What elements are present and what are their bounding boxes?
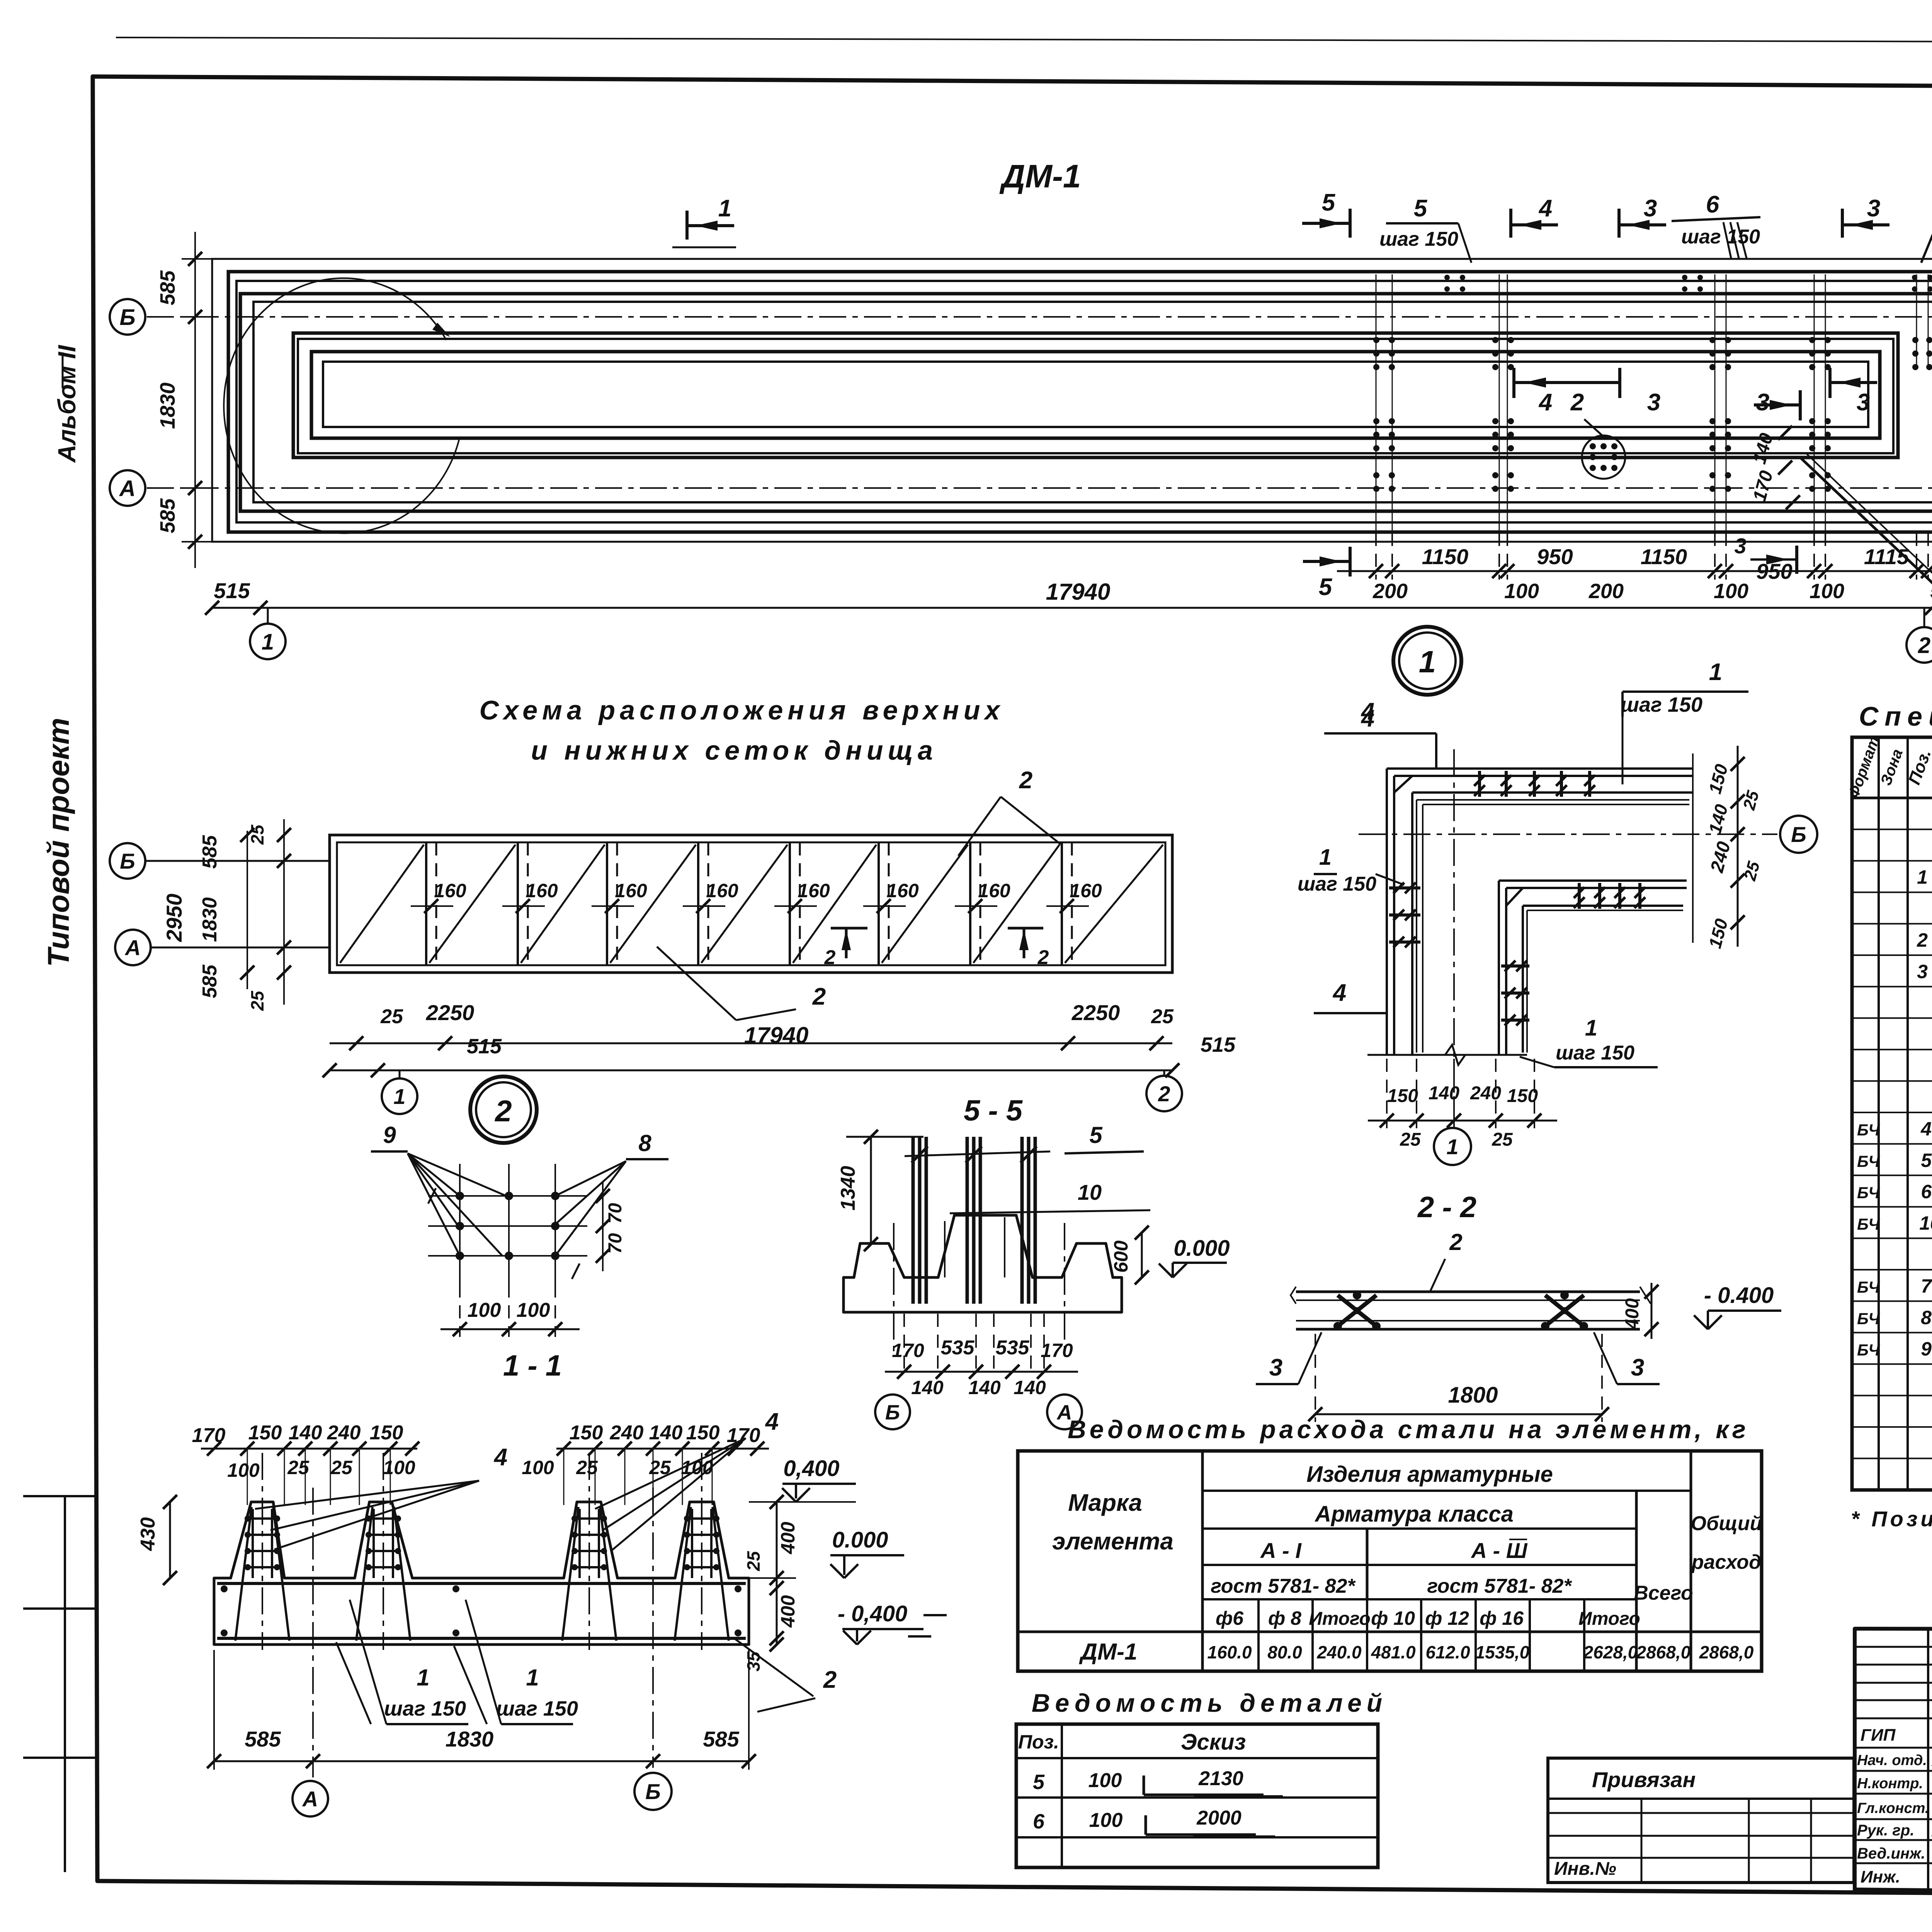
svg-text:Б: Б xyxy=(120,849,135,873)
svg-text:240.0: 240.0 xyxy=(1316,1642,1362,1662)
svg-text:1: 1 xyxy=(718,195,731,222)
plan axis circle А xyxy=(110,470,145,506)
svg-text:3: 3 xyxy=(1867,195,1880,222)
svg-text:5: 5 xyxy=(1414,195,1428,222)
svg-text:2868,0: 2868,0 xyxy=(1636,1642,1691,1662)
svg-text:1: 1 xyxy=(1585,1015,1597,1041)
svg-text:4: 4 xyxy=(1332,980,1346,1006)
svg-text:2: 2 xyxy=(1158,1082,1170,1106)
svg-text:25: 25 xyxy=(247,990,267,1011)
scheme axis leaders and circles xyxy=(145,860,330,862)
svg-text:25: 25 xyxy=(1151,1005,1174,1028)
svg-text:25: 25 xyxy=(743,1551,764,1571)
2-2 dim 1800 xyxy=(1315,1413,1602,1415)
5-5 inner form lines xyxy=(944,1221,946,1277)
svg-text:5: 5 xyxy=(1033,1770,1045,1794)
svg-text:2950: 2950 xyxy=(162,894,186,942)
svg-text:ф 10: ф 10 xyxy=(1371,1607,1415,1629)
svg-text:10: 10 xyxy=(1078,1180,1102,1204)
svg-text:100: 100 xyxy=(1504,580,1539,603)
svg-text:1 - 1: 1 - 1 xyxy=(503,1349,562,1382)
corner detail bottom dims xyxy=(1386,1059,1388,1128)
svg-text:200: 200 xyxy=(1588,580,1624,603)
svg-text:4: 4 xyxy=(1920,1118,1932,1139)
svg-text:25: 25 xyxy=(1492,1129,1513,1150)
svg-text:Спецификация на днище монолитн: Спецификация на днище монолитное ДМ-1 xyxy=(1859,701,1932,731)
dash marks left of tables xyxy=(923,1614,947,1616)
svg-text:5: 5 xyxy=(1322,189,1336,216)
svg-text:160: 160 xyxy=(1070,880,1102,901)
scheme bottom dims xyxy=(330,1043,1172,1044)
svg-text:1115: 1115 xyxy=(1864,544,1909,569)
svg-text:6: 6 xyxy=(1033,1810,1045,1833)
svg-text:612.0: 612.0 xyxy=(1425,1642,1470,1662)
corner detail grid circle 1 xyxy=(1434,1128,1471,1165)
svg-text:3: 3 xyxy=(1734,534,1746,558)
svg-text:2: 2 xyxy=(1917,929,1928,951)
svg-text:160: 160 xyxy=(978,880,1010,901)
svg-text:240: 240 xyxy=(1470,1083,1501,1104)
stirrup strip at x4452 xyxy=(1709,337,1716,343)
svg-text:шаг 150: шаг 150 xyxy=(1556,1042,1634,1064)
svg-text:2: 2 xyxy=(812,983,826,1010)
1-1 axis A and Б dash-dot xyxy=(312,1488,314,1777)
svg-text:3: 3 xyxy=(1756,389,1769,416)
svg-text:А: А xyxy=(302,1787,318,1811)
svg-text:160: 160 xyxy=(706,880,738,901)
5-5 axis dash-dot lines xyxy=(893,1223,895,1352)
corner detail cross ticks left band xyxy=(1389,886,1420,889)
title block staff rows xyxy=(1855,1747,1932,1749)
plan axis Б dash-dot xyxy=(147,316,1932,318)
svg-text:Марка: Марка xyxy=(1068,1490,1142,1516)
svg-text:70: 70 xyxy=(605,1233,626,1254)
svg-text:17940: 17940 xyxy=(1046,579,1111,605)
1-1 leader fan left 4 xyxy=(255,1481,479,1509)
svg-text:Всего: Всего xyxy=(1634,1582,1693,1604)
svg-text:1800: 1800 xyxy=(1448,1383,1498,1408)
sheet top edge xyxy=(116,37,1932,43)
svg-text:7: 7 xyxy=(1921,1275,1932,1297)
svg-text:585: 585 xyxy=(156,498,179,533)
corner diagonal braces xyxy=(1394,776,1412,793)
svg-text:150: 150 xyxy=(686,1422,720,1444)
svg-text:расход: расход xyxy=(1691,1551,1761,1573)
svg-text:шаг 150: шаг 150 xyxy=(1298,873,1376,895)
svg-text:140: 140 xyxy=(911,1377,944,1398)
svg-text:1: 1 xyxy=(262,629,274,655)
svg-text:1535,0: 1535,0 xyxy=(1475,1642,1530,1662)
1-1 right dims 400 25 400 35 xyxy=(776,1502,778,1645)
svg-text:* Позиции 5,6 смотреть ведомо: * Позиции 5,6 смотреть ведомость деталей… xyxy=(1851,1507,1932,1531)
2-2 chair bars X right xyxy=(1545,1295,1584,1326)
leader 7 inside plan xyxy=(1801,458,1932,601)
svg-text:Инж.: Инж. xyxy=(1861,1867,1900,1886)
svg-text:2: 2 xyxy=(1019,767,1032,794)
plan inner rect 6 xyxy=(293,333,1898,457)
svg-text:100: 100 xyxy=(1810,580,1844,603)
title block outer box xyxy=(1855,1629,1932,1898)
5-5 concrete outline xyxy=(844,1215,1122,1312)
svg-text:100: 100 xyxy=(468,1299,501,1321)
svg-text:585: 585 xyxy=(156,270,179,305)
svg-text:БЧ: БЧ xyxy=(1857,1152,1880,1170)
svg-text:170: 170 xyxy=(892,1340,924,1361)
scheme grid circle 1 xyxy=(399,1070,401,1079)
svg-text:25: 25 xyxy=(287,1457,310,1478)
svg-text:Общий: Общий xyxy=(1691,1512,1762,1535)
svg-text:1: 1 xyxy=(1319,845,1332,870)
svg-text:9: 9 xyxy=(383,1122,396,1148)
svg-text:100: 100 xyxy=(1089,1809,1123,1832)
svg-text:515: 515 xyxy=(214,578,250,603)
scheme grid circle 2 xyxy=(1163,1070,1165,1076)
svg-text:ф 8: ф 8 xyxy=(1268,1607,1301,1629)
svg-text:1830: 1830 xyxy=(199,897,221,942)
svg-text:150: 150 xyxy=(370,1422,403,1444)
plan inner hole rect 9 xyxy=(323,362,1868,427)
svg-text:150: 150 xyxy=(1387,1086,1418,1106)
node circle on dots inside plan xyxy=(1582,435,1625,479)
detail2 dims 100 100 xyxy=(440,1328,580,1330)
svg-text:1: 1 xyxy=(1446,1134,1458,1159)
corner detail rebar cross ticks top band xyxy=(1478,771,1481,797)
svg-text:950: 950 xyxy=(1537,544,1573,569)
svg-text:Вед.инж.: Вед.инж. xyxy=(1857,1845,1925,1862)
svg-text:585: 585 xyxy=(199,964,221,998)
svg-text:ф6: ф6 xyxy=(1216,1607,1244,1629)
detail2 leader fans xyxy=(408,1153,460,1196)
spec table row lines xyxy=(1852,828,1932,830)
plan outer rectangle xyxy=(212,259,1932,542)
corner detail bottom break line xyxy=(1367,1054,1527,1056)
svg-text:35: 35 xyxy=(743,1651,764,1672)
svg-text:Рук. гр.: Рук. гр. xyxy=(1857,1822,1914,1839)
1-1 slab rebar dots xyxy=(221,1585,228,1592)
svg-text:5*: 5* xyxy=(1921,1150,1932,1171)
svg-text:400: 400 xyxy=(1622,1298,1643,1330)
svg-text:Ведомость расхода стали на эле: Ведомость расхода стали на элемент, кг xyxy=(1068,1415,1749,1444)
svg-text:10: 10 xyxy=(1919,1213,1932,1234)
svg-text:Типовой проект: Типовой проект xyxy=(41,718,75,967)
svg-text:585: 585 xyxy=(245,1727,281,1751)
plan grid circle 1 xyxy=(267,608,269,624)
svg-text:8: 8 xyxy=(638,1130,651,1156)
svg-text:БЧ: БЧ xyxy=(1857,1121,1880,1139)
leader 7 above plan xyxy=(1921,223,1932,263)
dashed extension verticals under plan xyxy=(1375,533,1377,580)
svg-text:Поз.: Поз. xyxy=(1018,1731,1059,1753)
svg-text:6*: 6* xyxy=(1921,1181,1932,1202)
1-1 slab rebar top line xyxy=(217,1582,746,1585)
svg-text:2250: 2250 xyxy=(426,1000,474,1025)
svg-text:3: 3 xyxy=(1647,389,1660,416)
svg-text:шаг 150: шаг 150 xyxy=(1379,228,1458,250)
svg-text:240: 240 xyxy=(327,1422,361,1444)
svg-text:1: 1 xyxy=(1917,866,1928,888)
svg-text:2 - 2: 2 - 2 xyxy=(1417,1191,1476,1224)
svg-text:БЧ: БЧ xyxy=(1857,1184,1880,1202)
section mark 3a above plan xyxy=(1617,209,1621,238)
svg-text:Итого: Итого xyxy=(1578,1609,1640,1629)
1-1 top dim extension verticals xyxy=(247,1449,248,1505)
svg-text:2: 2 xyxy=(1037,946,1049,969)
scheme outer rect xyxy=(330,835,1172,973)
svg-text:1830: 1830 xyxy=(446,1727,494,1751)
stirrup plane verticals inside plan xyxy=(1376,274,1377,531)
svg-text:160.0: 160.0 xyxy=(1207,1642,1252,1662)
1-1 top dim line xyxy=(201,1448,417,1450)
section mark 4-2 inside plan xyxy=(1512,368,1515,398)
svg-text:БЧ: БЧ xyxy=(1857,1341,1880,1359)
detail callout double circle 1 under plan xyxy=(1393,627,1461,695)
svg-text:- 0,400: - 0,400 xyxy=(838,1601,908,1626)
1-1 axis circles xyxy=(293,1781,328,1816)
svg-text:3: 3 xyxy=(1631,1354,1644,1381)
corner detail top-right dim extensions xyxy=(1692,753,1694,943)
svg-text:Альбом II: Альбом II xyxy=(53,345,81,463)
section mark 5 below plan xyxy=(1349,547,1352,577)
corner detail axis verticals dash-dot xyxy=(1453,749,1455,1126)
svg-text:3: 3 xyxy=(1269,1354,1282,1381)
callout 1 шаг 150 under plan xyxy=(1621,692,1624,717)
5-5 rebar bar groups xyxy=(912,1137,915,1304)
svg-text:2: 2 xyxy=(1570,389,1584,416)
svg-text:2: 2 xyxy=(1449,1229,1462,1255)
svg-text:Ведомость деталей: Ведомость деталей xyxy=(1032,1689,1387,1717)
spec table outer box xyxy=(1852,737,1932,1490)
svg-text:Гл.конст.: Гл.конст. xyxy=(1857,1800,1929,1816)
svg-text:Б: Б xyxy=(1791,822,1806,847)
svg-text:70: 70 xyxy=(605,1203,626,1224)
svg-text:4: 4 xyxy=(1538,389,1552,416)
left margin column lines xyxy=(64,1496,66,1872)
svg-text:4: 4 xyxy=(1538,195,1552,222)
detail2 dots xyxy=(456,1192,464,1200)
svg-text:5 - 5: 5 - 5 xyxy=(964,1094,1023,1127)
svg-text:80.0: 80.0 xyxy=(1267,1642,1302,1662)
svg-text:515: 515 xyxy=(1201,1033,1236,1056)
svg-text:515: 515 xyxy=(467,1035,502,1058)
corner detail outer wall lines xyxy=(1387,767,1693,770)
svg-text:4: 4 xyxy=(1361,705,1374,732)
scheme inner rect xyxy=(337,842,1165,965)
5-5 dim 1340 xyxy=(870,1137,872,1244)
svg-text:Б: Б xyxy=(645,1779,661,1804)
svg-text:Н.контр.: Н.контр. xyxy=(1857,1776,1923,1792)
svg-text:Арматура класса: Арматура класса xyxy=(1314,1502,1514,1527)
svg-text:140: 140 xyxy=(1014,1377,1046,1398)
svg-text:585: 585 xyxy=(703,1727,739,1751)
svg-text:2: 2 xyxy=(494,1094,512,1128)
svg-text:Изделия арматурные: Изделия арматурные xyxy=(1306,1462,1553,1487)
plan overall dim line xyxy=(212,607,1932,609)
svg-text:Привязан: Привязан xyxy=(1592,1767,1696,1792)
section mark 3-1 inside plan xyxy=(1618,368,1621,398)
svg-text:160: 160 xyxy=(434,880,466,901)
svg-text:Б: Б xyxy=(119,305,135,330)
svg-text:400: 400 xyxy=(777,1522,799,1554)
svg-text:1: 1 xyxy=(417,1665,429,1690)
svg-text:2: 2 xyxy=(824,946,836,969)
stirrup strip at x4975 (edge) xyxy=(1912,337,1918,343)
svg-text:шаг 150: шаг 150 xyxy=(1621,693,1702,716)
svg-text:1: 1 xyxy=(526,1665,539,1690)
svg-text:ГИП: ГИП xyxy=(1861,1726,1896,1745)
svg-text:Эскиз: Эскиз xyxy=(1181,1730,1246,1755)
plan slab edge rect 2 xyxy=(228,272,1932,532)
svg-text:4: 4 xyxy=(765,1408,779,1435)
svg-text:1150: 1150 xyxy=(1641,544,1687,569)
svg-text:А - Ш: А - Ш xyxy=(1470,1538,1527,1563)
plan rect 4 xyxy=(240,294,1932,511)
2-2 chair bars X left xyxy=(1338,1295,1376,1326)
svg-text:430: 430 xyxy=(137,1517,159,1551)
plan grid circle 2 xyxy=(1923,608,1925,628)
svg-text:1: 1 xyxy=(1419,645,1436,679)
stirrup strip at axis x3580 xyxy=(1373,337,1379,343)
svg-text:1: 1 xyxy=(1709,659,1722,685)
svg-text:17940: 17940 xyxy=(744,1022,809,1048)
privyazan grid xyxy=(1548,1812,1854,1814)
stirrup strip at x4710 xyxy=(1809,337,1815,343)
svg-text:140: 140 xyxy=(968,1377,1001,1398)
spec table column lines xyxy=(1878,737,1880,1490)
plan rect 5 xyxy=(253,302,1932,502)
svg-text:140: 140 xyxy=(289,1422,322,1444)
svg-text:1830: 1830 xyxy=(156,383,179,429)
svg-text:160: 160 xyxy=(615,880,647,901)
plan axis circle Б xyxy=(110,299,145,335)
svg-text:2000: 2000 xyxy=(1196,1807,1242,1829)
svg-text:2868,0: 2868,0 xyxy=(1699,1642,1754,1662)
svg-text:1150: 1150 xyxy=(1422,544,1468,569)
svg-text:- 0.400: - 0.400 xyxy=(1704,1283,1774,1308)
corner detail cross ticks inner-left band xyxy=(1501,964,1529,968)
svg-text:ДМ-1: ДМ-1 xyxy=(999,158,1081,194)
svg-text:2250: 2250 xyxy=(1071,1000,1120,1025)
svg-text:481.0: 481.0 xyxy=(1371,1642,1416,1662)
spec table header bottom line xyxy=(1852,797,1932,799)
privyazan table box xyxy=(1548,1758,1854,1883)
top row dot groups in plan upper band xyxy=(1444,275,1450,280)
svg-text:Нач. отд.: Нач. отд. xyxy=(1857,1752,1927,1769)
svg-text:535: 535 xyxy=(941,1337,975,1359)
1-1 slab rebar bottom line xyxy=(217,1637,746,1640)
svg-text:ДМ-1: ДМ-1 xyxy=(1079,1639,1138,1665)
svg-text:БЧ: БЧ xyxy=(1857,1215,1880,1233)
svg-text:ф 12: ф 12 xyxy=(1425,1607,1469,1629)
svg-text:Итого: Итого xyxy=(1309,1609,1371,1629)
svg-text:Схема расположения верхних: Схема расположения верхних xyxy=(480,695,1005,725)
2-2 dim 400 right xyxy=(1651,1283,1653,1339)
svg-text:9: 9 xyxy=(1921,1338,1932,1360)
svg-text:БЧ: БЧ xyxy=(1857,1278,1880,1296)
svg-text:ф 16: ф 16 xyxy=(1480,1607,1524,1629)
parts table box xyxy=(1016,1724,1378,1867)
svg-text:150: 150 xyxy=(248,1422,282,1444)
svg-text:950: 950 xyxy=(1756,559,1792,583)
svg-text:3: 3 xyxy=(1857,389,1870,416)
svg-text:100: 100 xyxy=(1088,1769,1122,1792)
5-5 tick line across bars xyxy=(905,1151,1050,1156)
plan inner rect 8 xyxy=(311,352,1880,438)
svg-text:400: 400 xyxy=(777,1595,799,1628)
svg-text:535: 535 xyxy=(996,1337,1030,1359)
svg-text:шаг 150: шаг 150 xyxy=(496,1697,578,1720)
svg-text:0.000: 0.000 xyxy=(832,1527,888,1553)
svg-text:8: 8 xyxy=(1921,1307,1932,1328)
svg-text:гост 5781- 82*: гост 5781- 82* xyxy=(1427,1575,1572,1597)
svg-text:140: 140 xyxy=(649,1422,683,1444)
1-1 bottom dim line xyxy=(214,1760,749,1762)
svg-text:240: 240 xyxy=(610,1422,644,1444)
section mark 4 above plan xyxy=(1509,209,1512,238)
svg-text:100: 100 xyxy=(522,1457,554,1478)
detail callout double circle 2 xyxy=(470,1077,537,1143)
svg-text:2: 2 xyxy=(823,1667,837,1693)
svg-text:Б: Б xyxy=(885,1401,900,1424)
svg-text:170: 170 xyxy=(1041,1340,1073,1361)
1-1 hump cages xyxy=(252,1509,254,1578)
title block left thin rows xyxy=(1855,1646,1932,1648)
svg-text:25: 25 xyxy=(380,1005,403,1028)
plan corner revision arc xyxy=(224,278,460,533)
svg-text:0,400: 0,400 xyxy=(783,1456,839,1481)
svg-text:2130: 2130 xyxy=(1198,1767,1243,1790)
svg-text:150: 150 xyxy=(570,1422,603,1444)
svg-text:170: 170 xyxy=(727,1424,760,1447)
svg-text:100: 100 xyxy=(1714,580,1748,603)
section mark 5 left above plan xyxy=(1349,209,1352,238)
section mark 3-2 inside plan xyxy=(1799,390,1802,420)
svg-text:5: 5 xyxy=(1089,1122,1103,1148)
corner detail rebar cross ticks inner band xyxy=(1578,883,1581,909)
svg-text:200: 200 xyxy=(1372,580,1408,603)
5-5 bottom dims xyxy=(903,1314,905,1376)
svg-text:3: 3 xyxy=(1917,961,1928,982)
svg-text:6: 6 xyxy=(1706,191,1719,218)
svg-text:140: 140 xyxy=(1429,1083,1459,1104)
section mark 1 above plan xyxy=(685,211,689,240)
5-5 dim 600 and level 0.000 xyxy=(1141,1233,1143,1277)
section mark 3-3r inside plan xyxy=(1828,368,1832,398)
5-5 axis circles xyxy=(875,1395,910,1429)
svg-text:25: 25 xyxy=(330,1457,353,1478)
2-2 slab lines xyxy=(1296,1291,1640,1293)
stirrup strip at x3890 xyxy=(1492,337,1498,343)
svg-text:5: 5 xyxy=(1319,574,1333,600)
1-1 hump axes dash-dot xyxy=(262,1453,263,1650)
svg-text:0.000: 0.000 xyxy=(1173,1236,1230,1261)
corner detail axis Б dash-dot xyxy=(1359,833,1777,835)
svg-text:100: 100 xyxy=(517,1299,550,1321)
svg-text:600: 600 xyxy=(1110,1240,1132,1273)
svg-text:515: 515 xyxy=(1930,578,1932,603)
scheme dividers and diagonals xyxy=(425,842,427,965)
svg-text:25: 25 xyxy=(1400,1129,1421,1150)
detail2 dims 70 70 xyxy=(602,1182,604,1271)
svg-text:160: 160 xyxy=(798,880,830,901)
svg-text:и нижних сеток днища: и нижних сеток днища xyxy=(531,735,937,765)
scheme small arrows labeled 2 xyxy=(842,929,851,950)
plan axis А dash-dot xyxy=(147,487,1932,489)
svg-text:25: 25 xyxy=(247,824,267,845)
svg-text:100: 100 xyxy=(227,1459,260,1481)
svg-text:Инв.№: Инв.№ xyxy=(1554,1859,1616,1879)
svg-text:100: 100 xyxy=(383,1457,415,1478)
steel table grid xyxy=(1201,1451,1204,1671)
